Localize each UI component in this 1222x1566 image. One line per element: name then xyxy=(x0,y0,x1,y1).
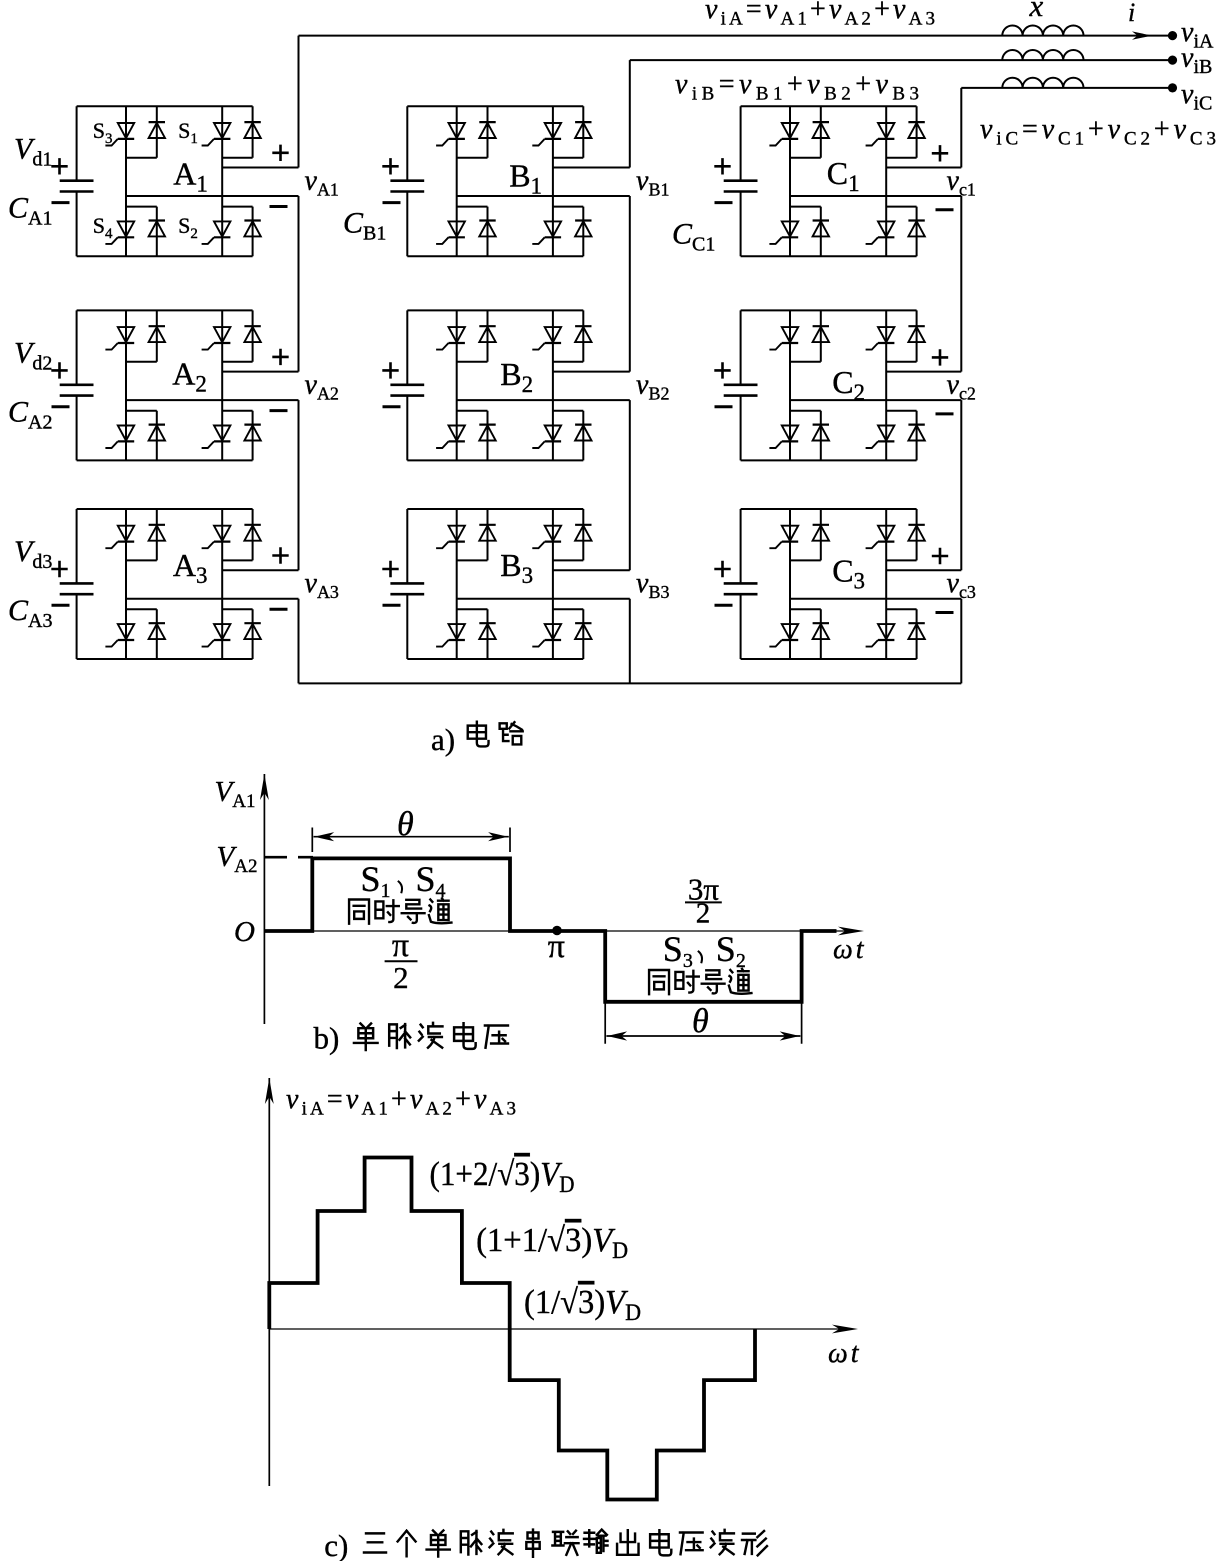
antiparallel diode, upper-right (cell C1) xyxy=(908,122,924,138)
wire: parallel-pair brackets of C1 xyxy=(790,158,917,207)
section b: omega-t axis (zero line) xyxy=(264,930,849,932)
terminal node v_iC xyxy=(1168,83,1177,92)
svg-text:O: O xyxy=(234,916,255,948)
inductor x (phase C) xyxy=(1002,78,1083,88)
capacitor CA1 polarity - xyxy=(52,201,70,204)
+ terminal label, cell A2 xyxy=(272,349,288,365)
wire: right switch-leg of C2 (x=886) xyxy=(885,310,887,460)
antiparallel diode, lower-left (cell B1) xyxy=(479,221,495,237)
thyristor lower-right (cell C3) xyxy=(866,624,895,647)
wire: + output of C3 to series riser xyxy=(886,569,961,571)
wire: left switch-leg of A2 (x=126) xyxy=(125,310,127,460)
waveform trace v_A1 (single pulse) xyxy=(264,858,836,1001)
wire: left switch-leg of B3 (x=457) xyxy=(456,509,458,659)
wire: diode branch stubs of C3 xyxy=(820,509,822,659)
antiparallel diode, upper-right (cell B3) xyxy=(575,525,591,541)
wire: + output of A2 to series riser xyxy=(222,371,298,373)
H-bridge cell B3: DC bus rails and frame xyxy=(407,509,583,659)
+ terminal label, cell C2 xyxy=(932,349,948,365)
capacitor CA2 polarity - xyxy=(52,405,70,408)
H-bridge cell B1: DC bus rails and frame xyxy=(407,106,583,256)
inductor x (phase B) xyxy=(1002,50,1083,60)
+ terminal label, cell C1 xyxy=(932,145,948,161)
capacitor CA3 polarity - xyxy=(52,604,70,607)
antiparallel diode, lower-left (cell C2) xyxy=(813,425,829,441)
antiparallel diode, upper-right (cell C3) xyxy=(908,525,924,541)
wire: left switch-leg of A1 (x=126) xyxy=(125,106,127,256)
antiparallel diode, upper-left (cell B2) xyxy=(479,326,495,342)
thyristor upper-right (cell A3) xyxy=(202,526,231,549)
wire: phase A series riser (cell outputs chained) xyxy=(298,36,300,684)
wire: right switch-leg of B1 (x=553) xyxy=(552,106,554,256)
wire: right switch-leg of C1 (x=886) xyxy=(885,106,887,256)
H-bridge cell C2: DC bus rails and frame xyxy=(741,310,917,460)
svg-text:a): a) xyxy=(431,722,455,757)
H-bridge cell A2: DC bus rails and frame xyxy=(77,310,253,460)
terminal node v_iB xyxy=(1168,56,1177,65)
antiparallel diode, upper-right (cell A1) xyxy=(244,122,260,138)
capacitor CB1 polarity + xyxy=(382,158,398,174)
thyristor lower-left (cell C3) xyxy=(769,624,798,647)
capacitor CA1 polarity + xyxy=(51,158,67,174)
wire: right switch-leg of B2 (x=553) xyxy=(552,310,554,460)
antiparallel diode, upper-left (cell C1) xyxy=(813,122,829,138)
thyristor lower-right (cell C1) xyxy=(866,221,895,244)
- terminal label, cell C1 xyxy=(936,208,954,211)
antiparallel diode, lower-right (cell B1) xyxy=(575,221,591,237)
wire: left switch-leg of B1 (x=457) xyxy=(456,106,458,256)
capacitor CC2 plates xyxy=(724,385,758,396)
antiparallel diode, lower-right (cell B3) xyxy=(575,623,591,639)
antiparallel diode, upper-left (cell B3) xyxy=(479,525,495,541)
wire: right switch-leg of C3 (x=886) xyxy=(885,509,887,659)
wire: parallel-pair brackets of A3 xyxy=(126,560,253,609)
thyristor upper-right (cell B2) xyxy=(532,327,561,350)
wire: phase B series riser (cell outputs chained) xyxy=(629,60,631,683)
waveform trace v_iA (staircase of three pulses) xyxy=(269,1158,755,1500)
antiparallel diode, upper-right (cell A2) xyxy=(244,326,260,342)
wire: left switch-leg of A3 (x=126) xyxy=(125,509,127,659)
svg-text:x: x xyxy=(1029,0,1044,23)
wire: - output of C1 (from left leg midpoint) to series riser xyxy=(790,195,961,197)
- terminal label, cell A1 xyxy=(270,205,288,208)
svg-text:b): b) xyxy=(314,1021,340,1056)
svg-text:π: π xyxy=(392,927,409,964)
capacitor CC1 polarity - xyxy=(715,201,733,204)
wire: parallel-pair brackets of C3 xyxy=(790,560,917,609)
wire: left switch-leg of C1 (x=790) xyxy=(789,106,791,256)
antiparallel diode, lower-right (cell C1) xyxy=(908,221,924,237)
svg-text:i: i xyxy=(1128,0,1135,27)
wire: - output of B1 (from left leg midpoint) to series riser xyxy=(457,195,630,197)
thyristor lower-left (cell B1) xyxy=(436,221,465,244)
wire: - output of B3 (from left leg midpoint) to series riser xyxy=(457,598,630,600)
wire: diode branch stubs of B2 xyxy=(487,310,489,460)
antiparallel diode, lower-left (cell A3) xyxy=(149,623,165,639)
wire: bottom neutral bus joining the three phase strings xyxy=(299,682,962,684)
antiparallel diode, upper-right (cell B1) xyxy=(575,122,591,138)
thyristor lower-left (cell C1) xyxy=(769,221,798,244)
dimension theta (positive pulse width) xyxy=(312,828,510,853)
thyristor S1 (cell A1) xyxy=(202,123,231,146)
capacitor CA2 polarity + xyxy=(51,362,67,378)
wire: - output of C2 (from left leg midpoint) to series riser xyxy=(790,399,961,401)
wire: - output of A2 (from left leg midpoint) to series riser xyxy=(126,399,299,401)
wire: left switch-leg of B2 (x=457) xyxy=(456,310,458,460)
svg-text:(1+1/√3)VD: (1+1/√3)VD xyxy=(476,1222,628,1263)
antiparallel diode, upper-left (cell A1) xyxy=(149,122,165,138)
thyristor upper-right (cell B1) xyxy=(532,123,561,146)
wire: right switch-leg of A3 (x=222) xyxy=(221,509,223,659)
antiparallel diode, upper-left (cell A3) xyxy=(149,525,165,541)
capacitor CB2 plates xyxy=(390,385,424,396)
current arrow i on phase A bus xyxy=(1132,31,1152,39)
thyristor lower-right (cell A2) xyxy=(202,426,231,449)
wire: phase C series riser (cell outputs chained) xyxy=(960,88,962,684)
capacitor CA3 plates xyxy=(60,583,94,594)
antiparallel diode, lower-left (cell B3) xyxy=(479,623,495,639)
svg-text:θ: θ xyxy=(692,1003,709,1040)
capacitor CA2 plates xyxy=(60,385,94,396)
thyristor lower-left (cell C2) xyxy=(769,426,798,449)
svg-text:π: π xyxy=(548,928,565,965)
inductor x (phase A) xyxy=(1002,25,1083,35)
antiparallel diode, upper-right (cell B2) xyxy=(575,326,591,342)
wire: + output of C2 to series riser xyxy=(886,371,961,373)
svg-text:ωt: ωt xyxy=(833,934,867,965)
antiparallel diode, upper-left (cell C3) xyxy=(813,525,829,541)
svg-text:2: 2 xyxy=(696,898,711,930)
thyristor lower-left (cell B3) xyxy=(436,624,465,647)
- terminal label, cell A3 xyxy=(270,608,288,611)
thyristor upper-left (cell A2) xyxy=(105,327,134,350)
thyristor lower-right (cell B2) xyxy=(532,426,561,449)
capacitor CC3 polarity - xyxy=(715,604,733,607)
wire: + output of A1 to series riser xyxy=(222,167,298,169)
antiparallel diode, upper-left (cell C2) xyxy=(813,326,829,342)
thyristor lower-right (cell B1) xyxy=(532,221,561,244)
thyristor lower-right (cell C2) xyxy=(866,426,895,449)
wire: phase A output bus xyxy=(299,35,1173,37)
capacitor CB3 polarity - xyxy=(383,604,401,607)
capacitor CC2 polarity - xyxy=(715,405,733,408)
thyristor lower-left (cell A3) xyxy=(105,624,134,647)
thyristor lower-right (cell A3) xyxy=(202,624,231,647)
svg-text:(1/√3)VD: (1/√3)VD xyxy=(524,1284,641,1325)
wire: diode branch stubs of C1 xyxy=(820,106,822,256)
capacitor CB3 polarity + xyxy=(382,561,398,577)
antiparallel diode, upper-right (cell A3) xyxy=(244,525,260,541)
thyristor upper-left (cell B2) xyxy=(436,327,465,350)
capacitor CC3 polarity + xyxy=(714,561,730,577)
+ terminal label, cell A3 xyxy=(272,547,288,563)
capacitor CC1 plates xyxy=(724,181,758,192)
wire: phase B output bus xyxy=(630,59,1173,61)
wire: left switch-leg of C3 (x=790) xyxy=(789,509,791,659)
H-bridge cell A3: DC bus rails and frame xyxy=(77,509,253,659)
wire: parallel-pair brackets of A1 xyxy=(126,158,253,207)
- terminal label, cell C2 xyxy=(936,412,954,415)
thyristor upper-right (cell C1) xyxy=(866,123,895,146)
section c: v axis xyxy=(268,1078,270,1486)
thyristor upper-left (cell C2) xyxy=(769,327,798,350)
thyristor upper-left (cell A3) xyxy=(105,526,134,549)
terminal node v_iA xyxy=(1168,31,1177,40)
capacitor CC1 polarity + xyxy=(714,158,730,174)
capacitor CB3 plates xyxy=(390,583,424,594)
antiparallel diode, lower-right (cell A1) xyxy=(244,221,260,237)
svg-text:ωt: ωt xyxy=(828,1338,862,1369)
antiparallel diode, lower-left (cell B2) xyxy=(479,425,495,441)
thyristor upper-right (cell B3) xyxy=(532,526,561,549)
wire: parallel-pair brackets of B3 xyxy=(457,560,584,609)
antiparallel diode, upper-right (cell C2) xyxy=(908,326,924,342)
thyristor upper-left (cell C1) xyxy=(769,123,798,146)
thyristor lower-left (cell B2) xyxy=(436,426,465,449)
svg-text:(1+2/√3)VD: (1+2/√3)VD xyxy=(430,1156,575,1197)
wire: diode branch stubs of B3 xyxy=(487,509,489,659)
wire: + output of A3 to series riser xyxy=(222,569,298,571)
wire: + output of B3 to series riser xyxy=(553,569,630,571)
wire: left switch-leg of C2 (x=790) xyxy=(789,310,791,460)
wire: - output of A3 (from left leg midpoint) to series riser xyxy=(126,598,299,600)
wire: parallel-pair brackets of B1 xyxy=(457,158,584,207)
svg-text:θ: θ xyxy=(397,806,414,843)
H-bridge cell C3: DC bus rails and frame xyxy=(741,509,917,659)
thyristor lower-left (cell A2) xyxy=(105,426,134,449)
H-bridge cell A1: DC bus rails and frame xyxy=(77,106,253,256)
wire: + output of B2 to series riser xyxy=(553,371,630,373)
wire: - output of B2 (from left leg midpoint) to series riser xyxy=(457,399,630,401)
antiparallel diode, lower-right (cell C3) xyxy=(908,623,924,639)
thyristor upper-left (cell B3) xyxy=(436,526,465,549)
capacitor CB1 plates xyxy=(390,181,424,192)
svg-text:c): c) xyxy=(324,1528,348,1561)
thyristor lower-right (cell B3) xyxy=(532,624,561,647)
wire: phase C output bus xyxy=(961,87,1172,89)
section c: omega-t axis xyxy=(269,1328,843,1330)
wire: - output of A1 (from left leg midpoint) to series riser xyxy=(126,195,299,197)
wire: diode branch stubs of A1 xyxy=(156,106,158,256)
node dot at pi on axis xyxy=(552,926,562,936)
thyristor upper-right (cell C3) xyxy=(866,526,895,549)
thyristor upper-right (cell C2) xyxy=(866,327,895,350)
wire: diode branch stubs of A3 xyxy=(156,509,158,659)
H-bridge cell B2: DC bus rails and frame xyxy=(407,310,583,460)
thyristor upper-left (cell C3) xyxy=(769,526,798,549)
svg-text:2: 2 xyxy=(393,960,409,995)
thyristor S2 (cell A1) xyxy=(202,221,231,244)
+ terminal label, cell A1 xyxy=(272,145,288,161)
capacitor CB1 polarity - xyxy=(383,201,401,204)
wire: diode branch stubs of A2 xyxy=(156,310,158,460)
wire: right switch-leg of A2 (x=222) xyxy=(221,310,223,460)
wire: right switch-leg of A1 (x=222) xyxy=(221,106,223,256)
antiparallel diode, lower-left (cell A2) xyxy=(149,425,165,441)
thyristor S3 (cell A1) xyxy=(105,123,134,146)
capacitor CC3 plates xyxy=(724,583,758,594)
capacitor CB2 polarity + xyxy=(382,362,398,378)
thyristor upper-right (cell A2) xyxy=(202,327,231,350)
- terminal label, cell C3 xyxy=(936,611,954,614)
capacitor CA3 polarity + xyxy=(51,561,67,577)
wire: + output of B1 to series riser xyxy=(553,167,630,169)
antiparallel diode, upper-left (cell B1) xyxy=(479,122,495,138)
+ terminal label, cell C3 xyxy=(932,548,948,564)
antiparallel diode, upper-left (cell A2) xyxy=(149,326,165,342)
- terminal label, cell A2 xyxy=(270,409,288,412)
antiparallel diode, lower-right (cell C2) xyxy=(908,425,924,441)
antiparallel diode, lower-right (cell B2) xyxy=(575,425,591,441)
thyristor S4 (cell A1) xyxy=(105,221,134,244)
wire: diode branch stubs of B1 xyxy=(487,106,489,256)
dashed level mark at V_A2 xyxy=(265,856,313,859)
antiparallel diode, lower-left (cell A1) xyxy=(149,221,165,237)
H-bridge cell C1: DC bus rails and frame xyxy=(741,106,917,256)
wire: parallel-pair brackets of A2 xyxy=(126,362,253,411)
antiparallel diode, lower-left (cell C3) xyxy=(813,623,829,639)
wire: right switch-leg of B3 (x=553) xyxy=(552,509,554,659)
capacitor CA1 plates xyxy=(60,181,94,192)
capacitor CC2 polarity + xyxy=(714,362,730,378)
wire: parallel-pair brackets of B2 xyxy=(457,362,584,411)
wire: + output of C1 to series riser xyxy=(886,167,961,169)
capacitor CB2 polarity - xyxy=(383,405,401,408)
thyristor upper-left (cell B1) xyxy=(436,123,465,146)
wire: diode branch stubs of C2 xyxy=(820,310,822,460)
wire: - output of C3 (from left leg midpoint) to series riser xyxy=(790,598,961,600)
wire: parallel-pair brackets of C2 xyxy=(790,362,917,411)
section b: V axis xyxy=(263,774,265,1024)
antiparallel diode, lower-left (cell C1) xyxy=(813,221,829,237)
dimension theta (negative pulse width) xyxy=(605,1002,801,1044)
antiparallel diode, lower-right (cell A3) xyxy=(244,623,260,639)
antiparallel diode, lower-right (cell A2) xyxy=(244,425,260,441)
